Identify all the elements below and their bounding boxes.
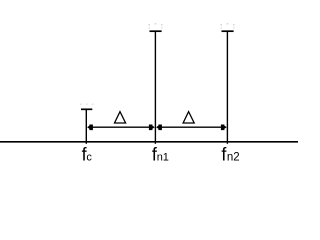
dimension arrow fn1 to fn2 (double-headed) [156, 125, 227, 131]
label fn2 [221, 145, 239, 165]
faint marks above fn2 cap [221, 23, 235, 29]
svg-text:n2: n2 [227, 152, 240, 164]
label fn1 [152, 145, 169, 165]
faint marks above fn1 cap [149, 23, 163, 29]
spectral line fc (carrier) [81, 109, 92, 144]
dimension arrow fc to fn1 (double-headed) [87, 125, 155, 131]
delta symbol 1 (triangle outline) [115, 112, 126, 123]
spectral line fn1 [150, 31, 162, 144]
frequency axis [0, 141, 298, 143]
svg-text:n1: n1 [157, 152, 169, 164]
spectral line fn2 [222, 31, 234, 144]
faint marks above fc cap [80, 104, 94, 106]
svg-text:c: c [86, 152, 92, 164]
label fc [82, 145, 93, 165]
delta symbol 2 (triangle outline) [183, 112, 194, 123]
